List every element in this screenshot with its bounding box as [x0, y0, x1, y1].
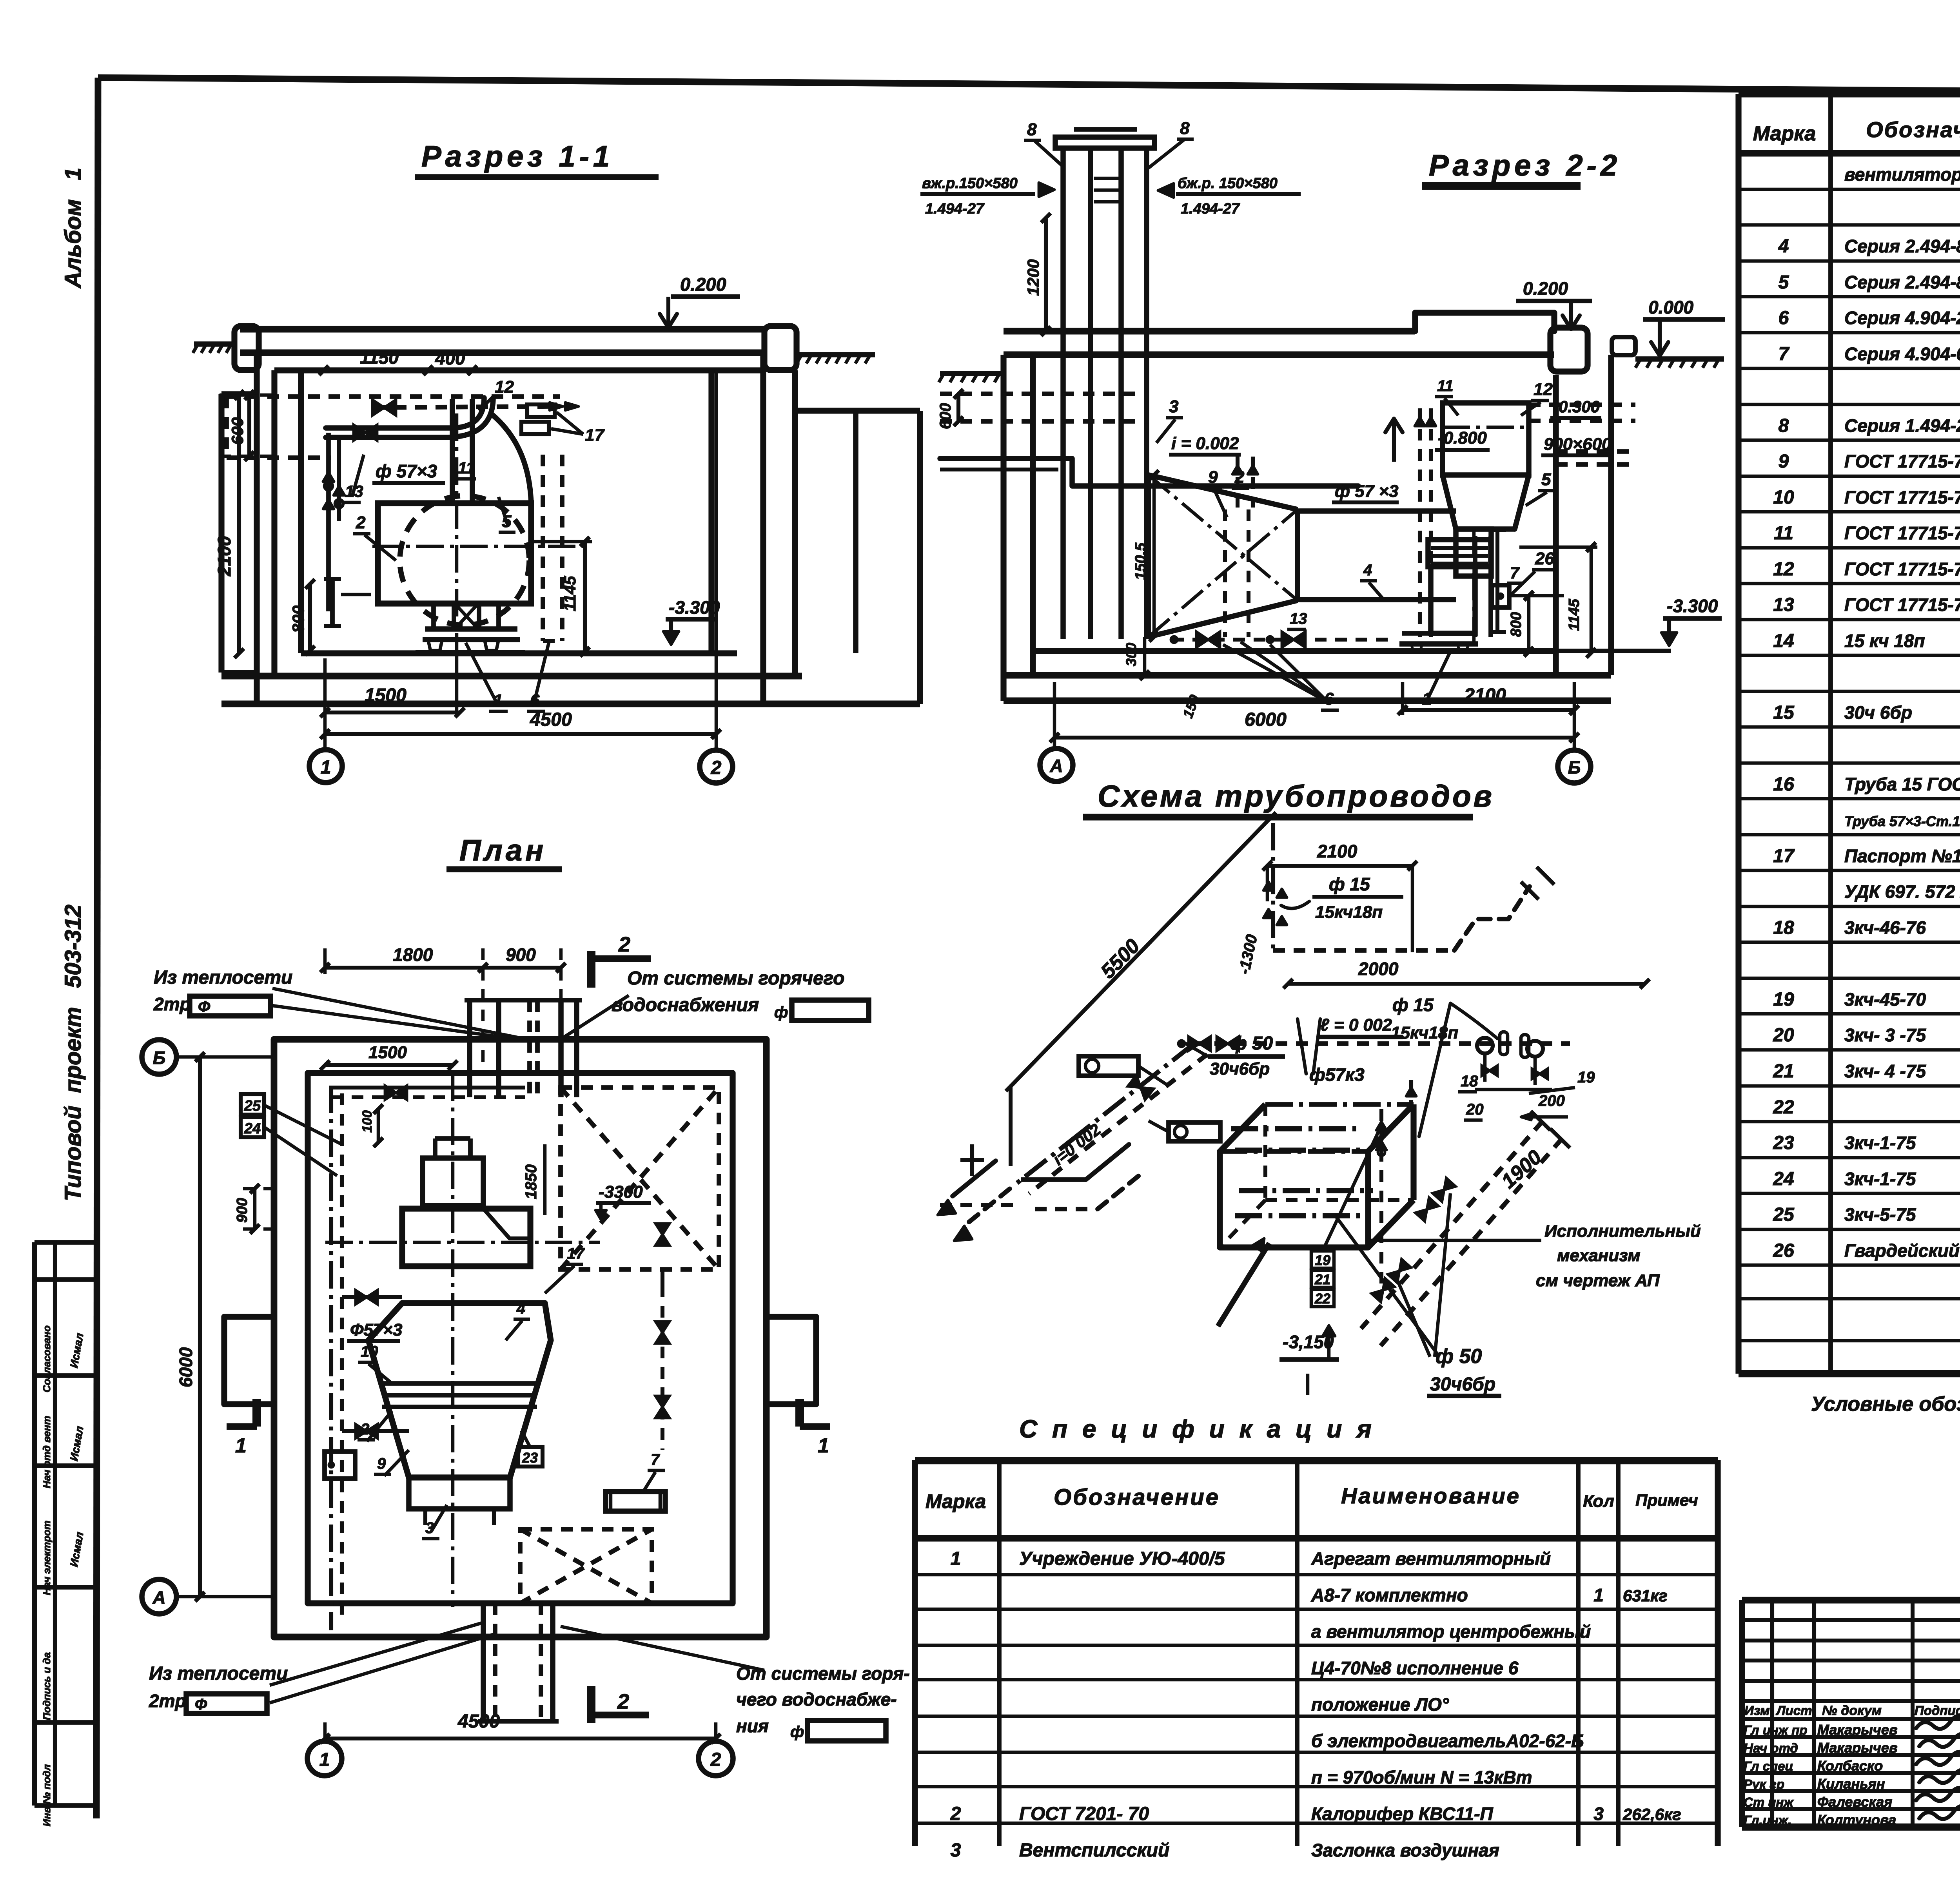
svg-text:Условные обозначения см.: Условные обозначения см. ТХ-36 — [1811, 1393, 1960, 1416]
section 1-1 wall sleeve detail — [330, 579, 335, 626]
svg-text:15кч18п: 15кч18п — [1315, 903, 1383, 922]
plan fan casing rect — [402, 1209, 530, 1266]
svg-text:900: 900 — [506, 944, 536, 965]
svg-text:Ф: Ф — [198, 998, 211, 1015]
svg-text:Киланьян: Киланьян — [1817, 1776, 1885, 1792]
plan section mark 2 bottom — [587, 1686, 595, 1723]
svg-text:ф 57×3: ф 57×3 — [376, 461, 437, 481]
scheme axis continuation marks — [970, 1144, 974, 1176]
svg-text:-0.300: -0.300 — [1553, 397, 1600, 416]
svg-text:Гл.инж.: Гл.инж. — [1744, 1813, 1791, 1827]
plan chamber inner wall — [308, 1073, 733, 1603]
svg-text:2100: 2100 — [214, 536, 234, 576]
scheme flag boxes with Ф — [1079, 1056, 1138, 1076]
svg-text:262,6кг: 262,6кг — [1622, 1805, 1681, 1824]
svg-text:Из теплосети: Из теплосети — [154, 967, 292, 988]
svg-text:26: 26 — [1535, 549, 1554, 568]
svg-text:Макарычев: Макарычев — [1817, 1740, 1898, 1756]
svg-text:-0.800: -0.800 — [1438, 428, 1487, 448]
svg-text:1850: 1850 — [523, 1164, 540, 1199]
svg-text:2: 2 — [711, 758, 722, 778]
svg-text:вж.р.150×580: вж.р.150×580 — [922, 175, 1018, 192]
section 1-1 dim 600 left — [247, 395, 251, 456]
svg-text:20: 20 — [1466, 1101, 1484, 1118]
specification table header lines — [915, 1457, 1718, 1464]
svg-text:ф 15: ф 15 — [1329, 874, 1370, 894]
scheme dim 5500 diagonal — [1011, 817, 1271, 1086]
section 1-1 calorifer box — [378, 503, 531, 604]
scheme top pipe run to corner — [1273, 948, 1454, 953]
scheme dim 2100 — [1267, 864, 1412, 868]
svg-text:25: 25 — [1773, 1204, 1795, 1225]
svg-text:2: 2 — [356, 513, 366, 532]
svg-text:Лист: Лист — [1776, 1703, 1812, 1718]
section 2-2 duct from cone to fan — [1298, 508, 1456, 514]
section 2-2 ground hatch left — [940, 371, 1004, 376]
svg-text:1145: 1145 — [561, 576, 579, 611]
svg-text:ГОСТ 7201- 70: ГОСТ 7201- 70 — [1019, 1804, 1149, 1824]
svg-text:вентиляторный завод: вентиляторный завод — [1844, 164, 1960, 185]
svg-text:Подпись: Подпись — [1915, 1703, 1960, 1718]
svg-text:С п е ц и ф и к а ц и я: С п е ц и ф и к а ц и я — [1019, 1415, 1376, 1443]
svg-text:18: 18 — [1461, 1073, 1478, 1090]
scheme section arrow lower left — [1218, 1243, 1269, 1326]
section 2-2 drain pipe entering — [940, 459, 1358, 486]
svg-text:30ч6бр: 30ч6бр — [1430, 1374, 1495, 1395]
section 2-2 inner duct risers — [1223, 509, 1227, 637]
svg-text:Колбаско: Колбаско — [1817, 1758, 1883, 1774]
svg-text:бж.р. 150×580: бж.р. 150×580 — [1178, 175, 1278, 192]
scheme 3d box front face — [1220, 1151, 1368, 1247]
scheme main run — [1194, 1041, 1570, 1046]
svg-text:9: 9 — [1208, 468, 1218, 487]
svg-text:Труба 57×3-Ст.10-ВГОСТ10704-76: Труба 57×3-Ст.10-ВГОСТ10704-76 — [1844, 813, 1960, 829]
svg-text:11: 11 — [458, 459, 475, 477]
scheme left branch pipes — [1081, 1044, 1194, 1133]
svg-text:10: 10 — [361, 1343, 378, 1360]
scheme riser small right — [1409, 1080, 1413, 1109]
svg-text:631кг: 631кг — [1623, 1586, 1668, 1605]
svg-text:2: 2 — [950, 1804, 961, 1824]
svg-text:ф 57 ×3: ф 57 ×3 — [1335, 482, 1399, 501]
svg-text:18: 18 — [1773, 917, 1794, 938]
svg-text:Серия 1.494-27 вып.7: Серия 1.494-27 вып.7 — [1844, 415, 1960, 436]
svg-text:ГОСТ 17715-72 б=0,7: ГОСТ 17715-72 б=0,7 — [1844, 595, 1960, 615]
parts table header top line — [1739, 91, 1960, 98]
svg-text:30ч6бр: 30ч6бр — [1210, 1059, 1270, 1079]
svg-text:8: 8 — [1027, 120, 1037, 139]
section 1-1 hidden supply duct dashes — [227, 394, 560, 399]
title block signature grid rows — [1742, 1618, 1960, 1622]
svg-text:11: 11 — [1437, 377, 1454, 395]
plan valves left side — [356, 1290, 377, 1304]
section 2-2 dim 6000 bottom — [1054, 736, 1574, 740]
specification table row lines — [915, 1573, 1718, 1577]
sheet border top line — [98, 78, 1960, 95]
svg-text:19: 19 — [1315, 1252, 1330, 1268]
plan grid bubble А — [142, 1579, 176, 1614]
svg-text:0.200: 0.200 — [1523, 278, 1568, 299]
svg-text:800: 800 — [1508, 612, 1524, 637]
svg-text:Альбом 1: Альбом 1 — [60, 168, 86, 289]
svg-text:3кч-46-76: 3кч-46-76 — [1844, 917, 1926, 938]
svg-text:-3.300: -3.300 — [1667, 596, 1718, 616]
svg-text:23: 23 — [522, 1450, 538, 1466]
svg-text:11: 11 — [1774, 523, 1793, 544]
svg-text:Ф57×3: Ф57×3 — [350, 1320, 402, 1340]
svg-text:300: 300 — [1123, 643, 1139, 666]
svg-text:Примеч: Примеч — [1635, 1491, 1698, 1509]
section 1-1 grid extension lines — [323, 658, 327, 749]
svg-text:6000: 6000 — [176, 1347, 196, 1387]
section 2-2 dim 600 left duct — [956, 394, 960, 421]
section 1-1 dim 1500 — [325, 711, 460, 714]
svg-text:0.000: 0.000 — [1648, 297, 1694, 317]
svg-text:7: 7 — [651, 1451, 660, 1468]
section 2-2 dim 300 — [1143, 637, 1147, 675]
svg-text:От системы горя-: От системы горя- — [736, 1663, 910, 1684]
section 2-2 dim 800 right — [1527, 596, 1531, 652]
plan section marks 1 — [227, 1423, 257, 1430]
svg-text:ГОСТ 17715-72 б=0,9: ГОСТ 17715-72 б=0,9 — [1844, 487, 1960, 508]
scheme manometer assembly — [1477, 1038, 1493, 1053]
section 1-1 dim 1150 — [324, 368, 428, 372]
svg-text:20: 20 — [1773, 1025, 1794, 1046]
svg-text:600: 600 — [937, 403, 954, 429]
svg-text:3: 3 — [1169, 397, 1178, 416]
svg-text:25: 25 — [244, 1098, 261, 1114]
svg-text:положение ЛО°: положение ЛО° — [1311, 1694, 1449, 1715]
svg-text:Разрез 1-1: Разрез 1-1 — [421, 140, 613, 173]
svg-text:План: План — [459, 834, 546, 867]
svg-text:2: 2 — [360, 1421, 369, 1438]
svg-text:А8-7 комплектно: А8-7 комплектно — [1311, 1585, 1468, 1605]
section 1-1 ground line left with hatch — [194, 341, 235, 347]
plan left wall niche — [224, 1317, 274, 1404]
plan dim 1850 — [543, 1144, 547, 1215]
section 1-1 left outer structure — [218, 394, 224, 673]
scheme 3d box top and back — [1220, 1104, 1265, 1151]
parts table header bottom line — [1739, 150, 1960, 157]
plan left pipe run — [329, 1086, 333, 1630]
svg-text:ℓ = 0 002: ℓ = 0 002 — [1320, 1015, 1392, 1035]
svg-text:УДК 697. 572 2: УДК 697. 572 2 — [1844, 881, 1960, 902]
svg-text:Нач отд вент: Нач отд вент — [41, 1416, 53, 1488]
section 2-2 fan vertical channel — [1473, 536, 1477, 637]
section 2-2 hidden duct through left wall — [940, 392, 1149, 396]
svg-text:Изм: Изм — [1744, 1703, 1770, 1718]
svg-text:Гл спец: Гл спец — [1744, 1759, 1793, 1773]
plan calorifer funnel — [368, 1303, 551, 1477]
svg-text:800: 800 — [289, 605, 307, 633]
svg-text:ния: ния — [736, 1716, 769, 1736]
svg-text:Нач отд: Нач отд — [1744, 1741, 1798, 1755]
section 2-2 ground hatch right — [1635, 356, 1724, 362]
section 2-2 dim 2100 bottom — [1403, 708, 1574, 712]
svg-text:1: 1 — [1593, 1585, 1604, 1605]
scheme vertical riser at box right — [1379, 1109, 1383, 1283]
scheme valves on lower pipes — [1433, 1178, 1456, 1202]
section 2-2 dashed risers center — [1418, 408, 1422, 637]
svg-text:Макарычев: Макарычев — [1817, 1722, 1898, 1738]
svg-text:22: 22 — [1773, 1097, 1794, 1118]
svg-text:чего водоснабже-: чего водоснабже- — [736, 1689, 897, 1709]
svg-text:23: 23 — [1773, 1133, 1794, 1153]
svg-text:12: 12 — [495, 377, 514, 397]
svg-text:12: 12 — [1534, 380, 1553, 399]
svg-text:2: 2 — [1234, 468, 1245, 487]
plan fan motor rect — [423, 1158, 483, 1206]
svg-text:-3.300: -3.300 — [669, 597, 720, 618]
svg-text:1: 1 — [818, 1434, 829, 1457]
section 2-2 fan inlet duct — [1456, 529, 1491, 576]
plan top duct channel — [467, 1000, 472, 1097]
plan dim 1500 — [325, 1063, 453, 1067]
section 2-2 chimney cap — [1055, 137, 1154, 148]
svg-text:3: 3 — [1593, 1804, 1604, 1824]
scheme bottom left exit pipes — [1021, 1177, 1086, 1182]
title block signature grid columns — [1770, 1600, 1774, 1827]
section 1-1 fan dashed circle — [400, 496, 529, 625]
plan labels 25 24 boxed — [241, 1094, 264, 1115]
svg-text:3кч-1-75: 3кч-1-75 — [1844, 1133, 1916, 1153]
section 2-2 grid bubble Б — [1558, 750, 1591, 783]
section 2-2 fan motor body — [1431, 567, 1475, 633]
left stamp table frame — [34, 1240, 96, 1245]
svg-text:12: 12 — [1773, 559, 1794, 580]
svg-text:9: 9 — [377, 1455, 386, 1472]
svg-text:Ц4-70№8 исполнение 6: Ц4-70№8 исполнение 6 — [1311, 1658, 1519, 1678]
svg-text:Серия 4.904-62: Серия 4.904-62 — [1844, 344, 1960, 364]
section 1-1 grid bubble 1 — [309, 750, 342, 783]
svg-text:2тр: 2тр — [153, 994, 191, 1014]
svg-text:5: 5 — [1779, 272, 1789, 293]
plan grid bubble 2 bottom — [699, 1741, 733, 1776]
svg-text:900×600: 900×600 — [1544, 435, 1612, 454]
svg-text:водоснабжения: водоснабжения — [612, 995, 759, 1015]
svg-text:1500: 1500 — [365, 685, 407, 706]
svg-text:1.494-27: 1.494-27 — [1181, 201, 1240, 217]
svg-text:22: 22 — [1314, 1291, 1330, 1307]
svg-text:№ докум: № докум — [1822, 1703, 1882, 1718]
section 2-2 floor lines — [1033, 648, 1556, 654]
section 1-1 right inner wall — [708, 370, 714, 653]
svg-text:26: 26 — [1773, 1240, 1794, 1261]
section 1-1 floor lines — [301, 650, 737, 656]
svg-text:150.5: 150.5 — [1132, 542, 1149, 580]
svg-text:1150: 1150 — [360, 347, 399, 368]
svg-text:Наименование: Наименование — [1341, 1483, 1521, 1508]
svg-text:15: 15 — [1773, 702, 1795, 723]
scheme dim 2000 — [1288, 982, 1645, 986]
svg-text:6: 6 — [1779, 308, 1789, 328]
svg-text:Гвардейский завод: Гвардейский завод — [1844, 1240, 1960, 1261]
svg-text:i = 0.002: i = 0.002 — [1171, 434, 1239, 453]
plan dim 1800 — [325, 966, 483, 970]
svg-text:15кч18п: 15кч18п — [1391, 1023, 1458, 1042]
plan dim 900 top — [483, 966, 561, 970]
svg-text:2тр: 2тр — [149, 1691, 186, 1711]
svg-text:Подпись и да: Подпись и да — [41, 1652, 53, 1720]
svg-text:а вентилятор центробежный: а вентилятор центробежный — [1311, 1621, 1591, 1642]
svg-text:Труба 15 ГОСТ 3262-75: Труба 15 ГОСТ 3262-75 — [1844, 774, 1960, 794]
plan drain box — [325, 1452, 355, 1479]
section 2-2 left wall — [1000, 355, 1006, 701]
svg-text:Марка: Марка — [1753, 122, 1816, 145]
svg-text:4: 4 — [516, 1300, 525, 1317]
section 2-2 hand pump box — [1492, 585, 1509, 607]
svg-text:Ст инж: Ст инж — [1744, 1795, 1794, 1809]
svg-text:10: 10 — [1773, 487, 1794, 508]
svg-text:механизм: механизм — [1557, 1246, 1641, 1265]
section 1-1 instrument flags — [527, 404, 555, 417]
svg-text:Калорифер КВС11-П: Калорифер КВС11-П — [1311, 1804, 1494, 1824]
svg-text:Нач электрот: Нач электрот — [41, 1521, 53, 1595]
svg-text:Типовой проект 503-312: Типовой проект 503-312 — [60, 905, 86, 1201]
section 1-1 far right structure — [795, 408, 920, 413]
scheme pipes through box — [1231, 1126, 1362, 1131]
svg-text:см чертеж АП: см чертеж АП — [1536, 1271, 1660, 1290]
section 2-2 chimney louvers — [1094, 177, 1119, 180]
svg-text:2: 2 — [618, 933, 630, 956]
svg-text:2: 2 — [710, 1749, 721, 1770]
section 1-1 top dashed pipe with flow arrows — [374, 406, 549, 408]
svg-text:13: 13 — [1290, 610, 1307, 627]
section 2-2 dim 1145 right — [1590, 547, 1593, 653]
section 1-1 dim 400 — [428, 368, 472, 372]
section 2-2 grid bubble А — [1040, 749, 1073, 781]
svg-text:1: 1 — [321, 757, 331, 778]
svg-text:ф57к3: ф57к3 — [1309, 1064, 1365, 1085]
section 1-1 ground line right with hatch — [797, 352, 875, 357]
section 1-1 heat pipes horizontal run — [326, 398, 484, 428]
svg-text:ф 50: ф 50 — [1436, 1345, 1482, 1368]
svg-text:5: 5 — [1541, 470, 1551, 489]
svg-text:ф: ф — [774, 1004, 788, 1021]
svg-text:1200: 1200 — [1024, 259, 1042, 296]
section 2-2 exhaust bend duct — [1443, 403, 1529, 475]
svg-text:ф: ф — [790, 1723, 804, 1740]
svg-text:9: 9 — [1779, 451, 1789, 472]
plan right dashed pipe with valves — [661, 1285, 664, 1450]
svg-text:30ч 6бр: 30ч 6бр — [1844, 702, 1912, 723]
plan equipment pad bottom right — [606, 1492, 665, 1511]
svg-text:3кч- 3 -75: 3кч- 3 -75 — [1844, 1025, 1926, 1045]
svg-text:21: 21 — [1314, 1271, 1330, 1287]
parts table bottom line — [1739, 1370, 1960, 1378]
svg-text:13: 13 — [1773, 595, 1794, 615]
svg-text:0.200: 0.200 — [680, 274, 726, 295]
title block signature squiggles — [1916, 1716, 1960, 1729]
svg-text:ГОСТ 17715-72 б=0,7: ГОСТ 17715-72 б=0,7 — [1844, 559, 1960, 579]
svg-text:Ф: Ф — [195, 1696, 207, 1713]
scheme lower right parallel pipes — [1361, 1121, 1543, 1329]
section 2-2 chimney shafts — [1060, 148, 1066, 639]
svg-text:15 кч 18п: 15 кч 18п — [1844, 631, 1925, 651]
svg-text:19: 19 — [1773, 989, 1794, 1010]
svg-text:Разрез 2-2: Разрез 2-2 — [1429, 149, 1621, 182]
svg-text:1: 1 — [951, 1548, 961, 1569]
svg-text:Заслонка воздушная: Заслонка воздушная — [1311, 1840, 1499, 1860]
plan chamber outer wall — [274, 1039, 766, 1637]
section 1-1 valve on supply pipe — [354, 425, 377, 441]
svg-text:3: 3 — [951, 1840, 961, 1861]
section 1-1 right wall column — [760, 353, 766, 704]
plan grid bubble Б — [142, 1040, 176, 1074]
section 2-2 transition 5 to fan — [1443, 475, 1529, 529]
svg-text:Инв № подл: Инв № подл — [41, 1764, 53, 1826]
svg-text:2100: 2100 — [1317, 841, 1357, 861]
plan calorifer outlet box — [409, 1477, 510, 1509]
svg-text:3кч- 4 -75: 3кч- 4 -75 — [1844, 1061, 1926, 1081]
section 2-2 transition cone — [1149, 475, 1298, 509]
svg-text:400: 400 — [435, 348, 465, 368]
parts table row lines — [1739, 188, 1960, 191]
svg-text:Агрегат вентиляторный: Агрегат вентиляторный — [1311, 1548, 1551, 1569]
svg-text:Обозначение: Обозначение — [1054, 1485, 1220, 1510]
section 1-1 riser pipes and fittings left — [326, 433, 331, 611]
section 1-1 left wall — [254, 353, 260, 704]
svg-text:17: 17 — [1773, 846, 1795, 867]
svg-text:4: 4 — [1778, 236, 1789, 257]
section 2-2 dim 1505 — [1152, 475, 1156, 637]
section 1-1 dim 800 left — [308, 584, 312, 651]
svg-text:Б: Б — [153, 1048, 166, 1068]
sheet border left line — [96, 78, 98, 1818]
svg-text:п = 970об/мин N = 13кВт: п = 970об/мин N = 13кВт — [1311, 1767, 1532, 1787]
svg-text:900: 900 — [234, 1198, 250, 1223]
svg-text:Рук гр: Рук гр — [1744, 1777, 1784, 1791]
svg-text:ГОСТ 17715-72 б=0,7: ГОСТ 17715-72 б=0,7 — [1844, 523, 1960, 543]
svg-text:А: А — [1049, 756, 1063, 776]
svg-text:7: 7 — [1510, 564, 1520, 582]
section 2-2 roof slab — [1004, 328, 1415, 335]
svg-text:17: 17 — [585, 426, 605, 445]
section 2-2 right wall — [1553, 375, 1559, 651]
svg-text:Учреждение УЮ-400/5: Учреждение УЮ-400/5 — [1019, 1548, 1225, 1569]
svg-text:100: 100 — [360, 1110, 375, 1133]
plan grid bubble 1 bottom — [307, 1741, 342, 1776]
plan hatched area top right — [561, 1088, 719, 1269]
section 2-2 dim 1200 chimney — [1044, 218, 1048, 331]
svg-text:1500: 1500 — [368, 1043, 407, 1062]
svg-text:6000: 6000 — [1245, 709, 1287, 730]
section 1-1 roof slab — [240, 326, 764, 333]
svg-text:24: 24 — [244, 1120, 261, 1137]
plan section mark 2 top — [587, 951, 595, 988]
svg-text:3кч-1-75: 3кч-1-75 — [1844, 1169, 1916, 1189]
plan dim 4500 bottom — [325, 1737, 716, 1740]
svg-text:Из теплосети: Из теплосети — [149, 1663, 288, 1684]
svg-text:4500: 4500 — [457, 1711, 500, 1732]
section 1-1 dim 2100 left — [237, 395, 241, 653]
section 1-1 fan outlet duct — [450, 399, 455, 503]
svg-text:4500: 4500 — [530, 709, 572, 730]
svg-text:7: 7 — [1779, 344, 1790, 364]
svg-text:3кч-5-75: 3кч-5-75 — [1844, 1204, 1916, 1225]
svg-text:Схема трубопроводов: Схема трубопроводов — [1098, 779, 1494, 813]
svg-text:ф 50: ф 50 — [1230, 1033, 1273, 1054]
svg-text:2000: 2000 — [1358, 959, 1399, 979]
scheme bottom left exit arrows — [953, 1161, 996, 1196]
svg-text:8: 8 — [1779, 415, 1789, 436]
specification table columns — [912, 1460, 918, 1846]
svg-text:200: 200 — [1538, 1092, 1565, 1109]
svg-text:Марка: Марка — [926, 1490, 986, 1512]
svg-text:От системы горячего: От системы горячего — [627, 968, 844, 989]
svg-text:24: 24 — [1773, 1169, 1794, 1189]
svg-text:Гл инж пр: Гл инж пр — [1744, 1723, 1808, 1737]
